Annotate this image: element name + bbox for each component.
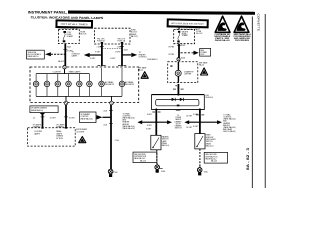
svg-text:SWITCH: SWITCH [175,128,182,130]
splice arrow right (to hvac lamps) [122,52,147,58]
page border line outer [264,14,266,188]
svg-text:(PAGE 8A-64-0): (PAGE 8A-64-0) [123,127,136,130]
svg-text:CORVETTE: CORVETTE [257,14,261,32]
wire into bus [64,69,66,74]
splice arrow left branch (double headed through wire) [137,120,172,124]
right switch label [206,134,216,148]
ESD triangle small (dim box) [79,137,86,143]
lamp stubs bottom [36,87,122,97]
dotted link between wires [102,47,122,49]
text right of center wire [123,112,136,130]
svg-text:8 GRY: 8 GRY [110,58,116,60]
wire right fuse down [178,44,180,58]
right branch wire down [199,109,201,133]
connector hash right branch [196,114,204,116]
wire from connector left [65,105,67,128]
left switch box [151,135,161,150]
svg-text:S208: S208 [181,58,185,60]
ground ref box right [204,152,227,163]
bus drop right [111,96,113,101]
svg-text:20 GRY: 20 GRY [186,115,193,117]
dimmer reference label box [30,106,58,116]
arrow to reference box [45,52,65,56]
dim module dashed box [28,127,76,146]
svg-text:BY BCM: BY BCM [56,138,63,140]
fuse block label middle [131,30,138,38]
svg-text:1 GRY: 1 GRY [97,47,103,49]
svg-text:(PAGE 8A-81-0): (PAGE 8A-81-0) [81,117,94,120]
svg-text:8A-120-0): 8A-120-0) [206,145,214,148]
svg-text:FUSE 5A: FUSE 5A [97,39,105,42]
cigarette lighter dashed box [168,62,198,83]
svg-text:8 GRY: 8 GRY [193,114,199,116]
HOT AT ALL TIMES box [56,20,92,27]
svg-text:S208 8A-81-2: S208 8A-81-2 [147,58,157,61]
junction right exit [199,108,201,110]
loop left edge [151,95,153,110]
text right of splice arrow [223,113,236,133]
svg-text:P100: P100 [114,172,118,174]
lamp bus bottom [36,95,122,97]
connector hash wire 2 [98,65,106,67]
ground connector right [197,166,207,175]
ESD triangle cluster right [138,67,148,79]
panel lamp 4 [66,81,72,87]
svg-text:S206: S206 [181,45,185,47]
fuse block label right [196,31,203,35]
left branch wire down [155,109,157,135]
svg-text:PAGE 8A-11-0: PAGE 8A-11-0 [28,55,39,58]
svg-text:HOT AT ALL TIMES: HOT AT ALL TIMES [61,23,89,26]
svg-text:8A-81-2: 8A-81-2 [58,60,64,63]
svg-text:INDICATOR: INDICATOR [125,83,135,86]
svg-text:8 GRY: 8 GRY [95,51,101,53]
svg-text:INDICATOR: INDICATOR [105,83,115,86]
dimmer control ref box + arrow [80,112,112,123]
svg-text:BLOCK: BLOCK [196,33,203,35]
junction left exit [155,108,157,110]
connector C1 on cluster [63,66,66,69]
loop inner rounded rect with diodes [156,98,199,106]
svg-text:PROCEDURES: PROCEDURES [235,40,250,42]
svg-text:G306: G306 [161,171,165,173]
wire dim box left [42,115,44,128]
svg-text:S234: S234 [124,49,128,51]
wire middle fuse 2 down [121,44,123,66]
svg-text:39 PNK: 39 PNK [168,54,175,56]
ESD triangle cig [201,68,208,75]
svg-text:8A-4-0: 8A-4-0 [199,63,204,66]
svg-text:20: 20 [33,117,35,119]
svg-text:(PAGE 8A-81-0): (PAGE 8A-81-0) [31,109,44,112]
instrument cluster dashed box [30,67,139,103]
svg-text:20 GRY: 20 GRY [50,117,57,119]
left switch label [162,135,170,147]
see fuse block details reference box [27,50,45,59]
svg-text:G200: G200 [204,171,208,173]
svg-text:LAMPS: LAMPS [72,55,79,58]
panel lamp 6 [87,81,93,87]
panel lamp 5 [77,81,83,87]
svg-text:BLOCK: BLOCK [80,34,87,36]
fuse block dashed box right [174,29,195,43]
svg-text:FUSE 5A: FUSE 5A [118,39,126,42]
HOT IN RUN box [168,19,208,27]
svg-text:8A-110-0): 8A-110-0) [162,144,170,147]
svg-text:C100: C100 [115,140,119,142]
svg-text:INSTRUMENT PANEL,: INSTRUMENT PANEL, [28,11,68,15]
splice arrow left (to console lamps) [72,51,102,57]
svg-text:LAMPS: LAMPS [34,132,41,135]
panel lamp 8 [119,81,125,87]
ground connector left [155,164,165,173]
center splice text block [175,115,183,130]
svg-text:8 GRY: 8 GRY [115,51,121,53]
svg-text:DEFOG (8A-62): DEFOG (8A-62) [223,130,236,133]
svg-text:CONTROL: CONTROL [139,56,147,58]
wire from HOT IN RUN box to gages fuse [178,27,180,30]
lamp bus top [36,73,89,75]
svg-text:20 AMP: 20 AMP [67,35,74,38]
panel lamp 1 [33,81,39,87]
connector hash on wire [173,86,184,89]
label right of dim box [76,129,87,133]
dimmer loop top bus [152,94,205,96]
svg-text:CLUSTER: INDICATORS AND PANEL: CLUSTER: INDICATORS AND PANEL LAMPS [31,15,104,20]
svg-text:10 AMP: 10 AMP [182,34,189,37]
left switch wire down dashed [156,150,158,164]
fuse block label left [80,31,87,35]
svg-text:DIST.: DIST. [201,54,206,56]
wire center down [110,105,112,170]
ESD warning triangle 2 (top right) [234,16,249,32]
connector ticks on loop bottom center [176,110,181,112]
svg-text:8 GRY: 8 GRY [90,58,96,60]
ground ref box left [133,152,157,163]
svg-text:8A - 82 - 3: 8A - 82 - 3 [246,148,250,170]
svg-text:CLUSTER: CLUSTER [76,131,85,133]
panel lamp 7 [99,81,105,87]
right switch box [195,134,205,149]
svg-text:39 PNK: 39 PNK [168,47,175,49]
svg-text:20 GRY: 20 GRY [186,127,193,129]
wire left fuse down [64,44,66,67]
panel lamp 3 [55,81,61,87]
svg-text:PANEL LAMPS: PANEL LAMPS [69,71,81,74]
splice arrow right branch (double headed through wire) [184,120,222,124]
splice arrow right fuse [181,48,211,56]
right switch wire down dashed [199,149,201,166]
loop right edge [203,95,205,110]
connector at cig box feed [177,58,180,61]
loop bottom edge [151,108,205,110]
ESD triangle 1 caption [214,33,231,42]
svg-text:8A-14-3: 8A-14-3 [211,160,217,163]
ESD triangle 2 caption [234,33,252,42]
connector hash left branch [152,111,160,113]
svg-text:20 GRY: 20 GRY [69,117,76,119]
bus drop left [65,96,67,101]
lamp stubs top [36,68,122,81]
ESD warning triangle 1 (top right) [215,16,230,32]
page border line inner [251,17,253,189]
title INSTRUMENT PANEL [28,11,68,15]
wire cig box to loop [177,84,179,95]
panel lamp 2 [44,81,50,87]
svg-text:8 GRY: 8 GRY [193,126,199,128]
svg-text:8A-11-2): 8A-11-2) [131,35,138,38]
wire middle fuse 1 down [101,44,103,66]
connector on cluster bottom left [64,101,68,105]
svg-text:LIGHTER: LIGHTER [184,74,192,76]
connector hash wire 3 [118,65,126,67]
connector on cluster bottom right [110,101,114,105]
svg-text:8A-14-3: 8A-14-3 [140,159,146,162]
ground G mid wire [108,169,117,177]
svg-text:8 GRY: 8 GRY [147,125,153,127]
svg-text:8 GRY: 8 GRY [146,129,152,131]
svg-text:MODULE: MODULE [206,97,214,99]
svg-text:8A-4-0: 8A-4-0 [138,69,143,72]
svg-text:PAGE 8A-4-0: PAGE 8A-4-0 [215,39,230,42]
svg-text:1 GRY: 1 GRY [117,47,123,49]
svg-text:8 GRY: 8 GRY [147,114,153,116]
connector ticks on wires [100,45,181,46]
fuse block dashed box left [58,30,79,44]
svg-text:S204: S204 [67,47,71,49]
fuse block dashed box middle [95,28,131,44]
title bar [68,11,255,15]
